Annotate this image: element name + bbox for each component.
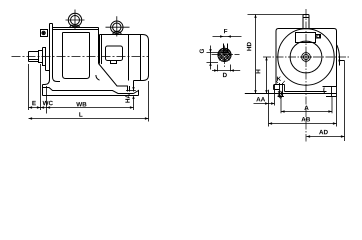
dimension WC extension — [46, 86, 48, 114]
eyebolt E1 base — [70, 25, 80, 27]
dimension D — [218, 65, 231, 72]
label E — [32, 101, 36, 105]
shaft hub circles — [302, 53, 311, 62]
arrows row1 — [29, 106, 134, 108]
terminal box tab — [111, 61, 117, 64]
label HA rotated — [125, 94, 129, 103]
label L — [79, 112, 82, 116]
section circle — [218, 48, 231, 61]
dimension AD line — [307, 136, 345, 138]
label D — [223, 73, 227, 77]
shaft — [29, 52, 39, 62]
front end bracket — [43, 24, 61, 85]
dimension HA — [126, 90, 136, 92]
dimension A line — [281, 111, 332, 113]
side view shaft centerline — [12, 56, 149, 58]
dimension H line — [266, 57, 268, 94]
dimension AD extension — [344, 61, 346, 142]
dimension AA line — [254, 103, 275, 105]
eyebolt E2 base — [113, 32, 122, 35]
grease box circle — [42, 31, 45, 34]
motor body outline — [53, 28, 99, 64]
dimension E extension lines — [29, 64, 41, 110]
terminal box end view — [296, 33, 316, 43]
grease box — [41, 30, 48, 37]
left foot bolt hole section — [278, 83, 284, 97]
rear foot — [130, 86, 139, 96]
dimension L line — [29, 118, 149, 120]
keyway slot — [222, 44, 229, 53]
outer frame square — [276, 29, 337, 87]
foot plate left verticals — [269, 85, 275, 94]
foot plate bottom with left extension — [245, 93, 337, 95]
label AB — [301, 117, 310, 121]
left foot — [274, 85, 285, 92]
gland boss — [316, 35, 321, 39]
eyebolt E2 ring — [111, 21, 123, 33]
end view vertical centerline — [305, 9, 307, 142]
label AA — [256, 97, 265, 101]
outer circle — [278, 29, 334, 85]
dimension F line — [213, 36, 242, 38]
end view horizontal centerline — [263, 56, 350, 58]
terminal box on housing face — [106, 46, 123, 61]
dimension row E WC WB line — [29, 107, 134, 109]
stator core rectangle — [63, 33, 90, 79]
eyebolt E2 cross — [106, 16, 130, 36]
rear diagonal — [96, 64, 128, 92]
eyebolt E1 cross — [66, 10, 85, 31]
label WC — [43, 101, 53, 105]
foot top line — [285, 91, 327, 93]
side fitting right — [337, 45, 345, 66]
label AD — [319, 130, 328, 134]
label H rotated — [256, 70, 260, 74]
top eyebolt stud — [303, 15, 309, 29]
section hatch — [218, 49, 231, 62]
shaft hub — [43, 48, 50, 71]
label WB — [76, 102, 86, 106]
dimension HD extension top — [248, 14, 304, 16]
right foot bracket — [323, 87, 337, 97]
detail centerlines — [212, 46, 240, 68]
label A — [304, 106, 308, 110]
label K — [277, 77, 281, 81]
eyebolt E1 ring — [68, 13, 81, 26]
dimension AB extensions — [269, 94, 337, 127]
body underside and foot — [43, 85, 139, 96]
terminal box outer sides — [102, 35, 129, 81]
hub cross — [300, 51, 312, 63]
rear housing — [100, 35, 149, 92]
dimension L extension lines — [148, 81, 150, 122]
K leader arrows — [276, 81, 285, 83]
dimension WB right extension — [133, 97, 135, 111]
label HD rotated — [247, 42, 251, 50]
label G rotated — [200, 49, 204, 53]
dimension HD line — [255, 15, 257, 94]
label F — [224, 29, 227, 33]
dimension AB line — [269, 123, 337, 125]
shaft collar — [39, 51, 43, 63]
dimension A extensions — [281, 97, 332, 114]
dimension G — [207, 53, 223, 63]
inner circle — [290, 41, 322, 73]
